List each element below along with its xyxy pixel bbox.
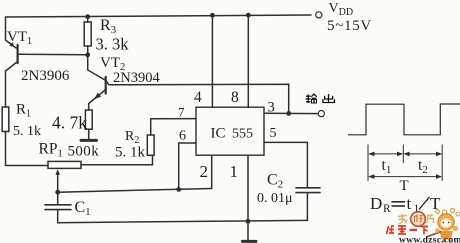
svg-text:7: 7 [178, 105, 185, 120]
svg-text:2N3906: 2N3906 [21, 68, 70, 84]
watermark faux char blob 1 [398, 214, 408, 224]
wire R3 bottom to node A [87, 46, 89, 55]
wire pin 4 to rail [211, 15, 213, 107]
svg-text:5. 1k: 5. 1k [115, 145, 146, 161]
wire pin2/pin6 node to wiper [58, 189, 212, 193]
wire RP1 right to R2 bottom [81, 155, 153, 165]
svg-text:4: 4 [194, 89, 202, 106]
wire pin 5 to C2 [264, 142, 307, 187]
transistor Q2 VT2 emitter with arrow [89, 90, 106, 111]
svg-text:www.dzsc.com: www.dzsc.com [399, 236, 460, 243]
waveform dimension lines t1 t2 T [368, 145, 442, 182]
svg-text:3. 3k: 3. 3k [96, 35, 130, 54]
resistor R4 4.7k body [85, 110, 92, 129]
svg-text:1: 1 [230, 162, 239, 181]
svg-text:2N3904: 2N3904 [113, 70, 160, 86]
svg-text:555: 555 [232, 127, 253, 142]
VDD terminal circle [316, 12, 322, 18]
resistor R3 leads [87, 17, 89, 22]
svg-text:IC: IC [211, 126, 226, 142]
watermark 维库一下 red text (drawn glyphs) [387, 226, 429, 235]
potentiometer RP1 wiper arrow [57, 172, 59, 193]
wire 4.7k to ground [88, 129, 90, 139]
svg-text:T: T [400, 178, 409, 194]
svg-text:2: 2 [200, 162, 209, 181]
svg-text:8: 8 [231, 89, 239, 106]
svg-text:3: 3 [268, 100, 275, 116]
output terminal circle [318, 111, 324, 117]
ground bar under pin 1 [242, 240, 256, 243]
watermark faux char blob 2 [426, 215, 434, 224]
formula DR = t1/T [370, 194, 441, 215]
capacitor C2 bottom lead [306, 193, 308, 221]
svg-text:t: t [407, 194, 412, 213]
wire bottom ground rail [58, 220, 308, 222]
svg-text:5~15V: 5~15V [327, 18, 372, 34]
wire R2 top to pin 7 [151, 119, 196, 135]
wire VT1 base to node A [19, 53, 88, 56]
transistor Q1 VT1 emitter arrow [9, 42, 14, 47]
IC 555 box U1 [196, 107, 264, 155]
watermark mascot [427, 208, 460, 242]
resistor R3 body [84, 22, 91, 46]
watermark seal [411, 212, 426, 227]
capacitor C2 plates [296, 187, 320, 189]
svg-text:5. 1k: 5. 1k [13, 124, 41, 139]
capacitor C1 bottom lead [57, 210, 59, 223]
svg-text:0. 01μ: 0. 01μ [257, 191, 293, 206]
svg-text:R: R [383, 203, 391, 215]
svg-text:4. 7k: 4. 7k [52, 113, 87, 133]
resistor R2 body [147, 135, 154, 155]
svg-text:D: D [370, 194, 382, 213]
svg-text:500k: 500k [68, 144, 100, 160]
svg-text:6: 6 [179, 129, 186, 144]
wire VT2 collector to output node [106, 81, 289, 114]
wire pin 8 to rail [247, 15, 249, 107]
capacitor C1 top lead [57, 192, 59, 204]
wire pin 3 to output terminal [264, 112, 318, 114]
potentiometer RP1 body [48, 161, 81, 168]
wire top rail VDD [6, 15, 312, 17]
wire pin 1 to ground [247, 155, 249, 240]
wire top-left bend to VT1 emitter [6, 17, 17, 48]
wire node A down to VT2 base [88, 55, 105, 80]
wire pin 2 drop [211, 155, 213, 188]
transistor Q2 VT2 base bar [105, 77, 107, 94]
capacitor C1 plates [45, 204, 71, 206]
wire pin 6 to bottom node [179, 143, 196, 189]
label 输出 output (drawn glyphs) [306, 94, 335, 103]
svg-text:5: 5 [270, 126, 277, 141]
resistor R1 body [2, 107, 9, 132]
wire VT1 collector down-left [6, 62, 18, 108]
transistor Q1 VT1 base bar [17, 45, 19, 63]
wire R1 bottom to RP1 [6, 132, 49, 166]
waveform square wave [348, 104, 460, 135]
ground bar under 4.7k [81, 139, 97, 142]
